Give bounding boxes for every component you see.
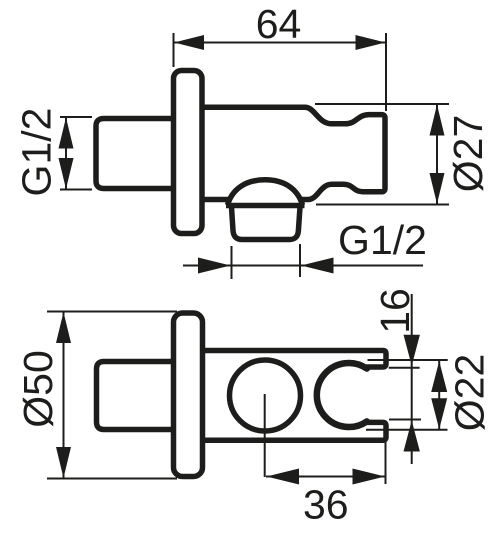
plan view: fork cradle arc [317, 363, 367, 427]
dim 64: right extension line [385, 33, 387, 111]
plan view: G1/2 inlet spigot [97, 362, 174, 430]
dim 36: left-pointing arrowhead [267, 469, 300, 485]
dim O22: up arrowhead [431, 361, 447, 392]
dim 16: dimension line [411, 294, 413, 464]
side view: outlet dome [228, 180, 303, 205]
plan view: holder arm outline with fork prongs [203, 351, 387, 441]
dim G1/2 outlet: left-pointing arrowhead [301, 258, 334, 274]
dim O27: dimension line [436, 104, 438, 205]
dim 16: down arrowhead [404, 335, 420, 366]
svg-text:36: 36 [303, 482, 349, 528]
svg-text:G1/2: G1/2 [338, 217, 427, 263]
dim O27: bottom extension line [316, 204, 449, 206]
svg-text:G1/2: G1/2 [14, 108, 60, 197]
dim G1/2 inlet: top extension tick [60, 116, 92, 118]
side view: G1/2 inlet spigot [96, 119, 174, 189]
plan view: outlet boss circle [230, 360, 301, 431]
dim O50: up arrowhead [56, 312, 71, 343]
dim 64: left arrowhead [174, 35, 204, 50]
dim 36: dimension line [266, 476, 386, 478]
dim O50: down arrowhead [56, 447, 71, 478]
dim 16: lower lip extension line [389, 419, 421, 421]
dim 36: right-pointing arrowhead [353, 469, 386, 485]
dim 16: up arrowhead [404, 421, 420, 452]
dim O22: upper arc-tangent extension line [368, 359, 448, 361]
dim O50: dimension line [63, 312, 65, 479]
dim 16: upper lip extension line [389, 367, 420, 369]
dim O22: lower arc-tangent extension line [366, 429, 448, 431]
svg-text:Ø22: Ø22 [447, 354, 493, 432]
dim G1/2 inlet: dimension line [65, 117, 67, 190]
plan view: boss centre line [264, 394, 266, 477]
dim O22: dimension line [438, 361, 440, 430]
dim O22: down arrowhead [431, 398, 447, 429]
dim G1/2 outlet: right extension line [299, 244, 301, 277]
dim G1/2 inlet: bottom extension tick [60, 189, 92, 191]
dim G1/2 inlet: down arrowhead [59, 158, 74, 189]
dim G1/2 inlet: up arrowhead [59, 118, 74, 149]
svg-text:Ø50: Ø50 [15, 350, 61, 428]
plan view: wall flange [174, 313, 203, 477]
side view: outlet body [232, 207, 301, 240]
dim G1/2 outlet: right-pointing arrowhead [198, 258, 231, 274]
dim 36: right extension line [385, 442, 387, 484]
dim G1/2 outlet: left extension line [231, 246, 233, 279]
side view: outlet lip [226, 203, 305, 209]
dim G1/2 outlet: dimension line [183, 265, 423, 267]
dim 64: dimension line [174, 42, 387, 44]
svg-text:Ø27: Ø27 [445, 115, 491, 193]
dim O27: top extension line [315, 103, 449, 105]
side view: holder body outline [202, 107, 385, 199]
svg-text:64: 64 [256, 1, 302, 47]
dim O27: up arrowhead [430, 105, 445, 136]
dim 64: right arrowhead [356, 35, 386, 50]
dim O50: top extension line [47, 311, 177, 313]
svg-text:16: 16 [372, 288, 418, 334]
dim O27: down arrowhead [430, 173, 445, 204]
dim O50: bottom extension line [47, 478, 177, 480]
side view: wall flange [174, 71, 203, 234]
dim 64: left extension line [173, 33, 175, 67]
